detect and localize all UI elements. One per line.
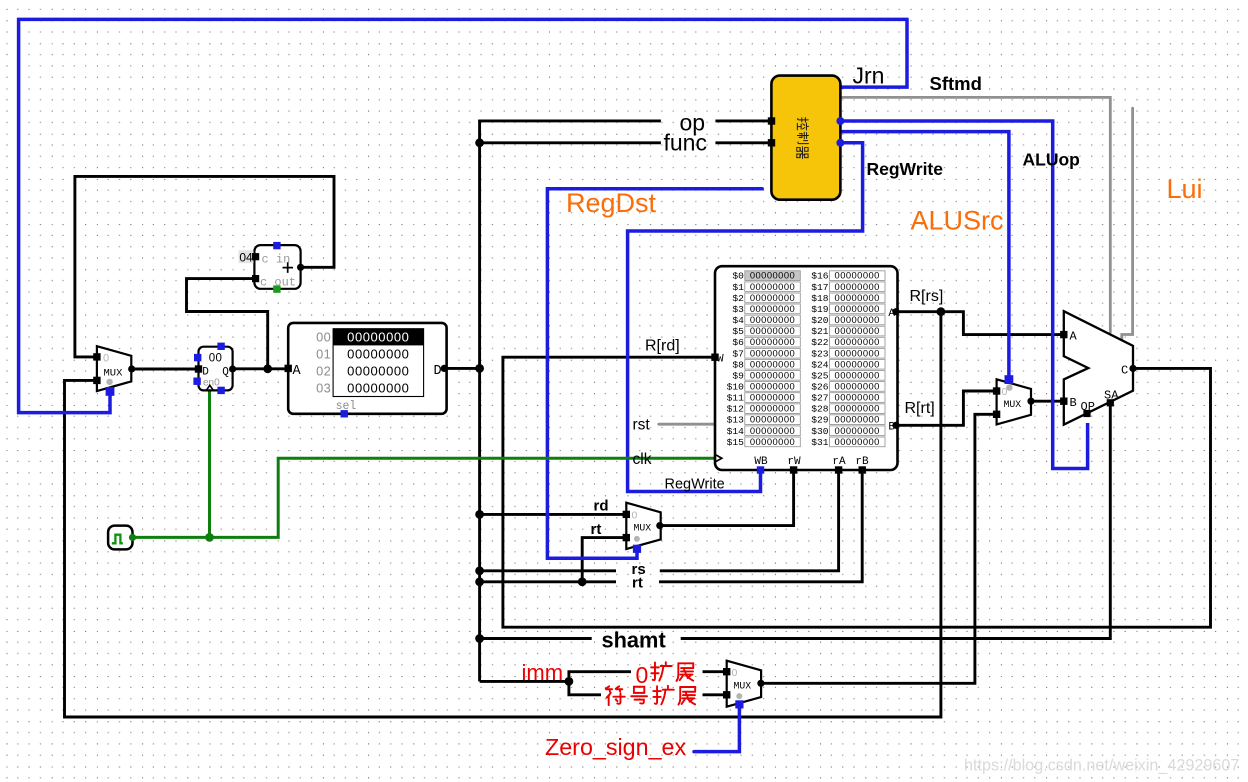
svg-text:00000000: 00000000 (750, 381, 795, 392)
ALUSrc mux output dot (1027, 398, 1034, 405)
svg-text:Sftmd: Sftmd (930, 73, 982, 94)
svg-text:$22: $22 (811, 337, 829, 348)
wire: Lui gray floating (1122, 108, 1133, 347)
label 0-extend (red) (636, 662, 694, 688)
svg-text:00000000: 00000000 (750, 414, 795, 425)
svg-text:$4: $4 (732, 315, 744, 326)
svg-text:A: A (1070, 329, 1078, 343)
extend mux input 0 port (723, 668, 730, 675)
junction: green clock node (205, 533, 214, 542)
svg-text:rd: rd (594, 498, 609, 515)
svg-text:R[rt]: R[rt] (905, 400, 935, 417)
svg-text:00000000: 00000000 (347, 380, 409, 395)
wire: extender mux output to ALUSrc mux input 1 (761, 414, 997, 683)
wire: ALUSrc mux output to ALU B (1031, 400, 1064, 403)
svg-text:MUX: MUX (1004, 399, 1022, 410)
counter U4 (c in / c out) (254, 245, 300, 289)
svg-text:imm: imm (522, 660, 564, 685)
extend mux select pin (blue) (735, 700, 743, 708)
svg-text:RegDst: RegDst (566, 188, 657, 218)
svg-text:00000000: 00000000 (835, 436, 880, 447)
ALU C output dot (1129, 365, 1136, 372)
svg-text:00000000: 00000000 (835, 369, 880, 380)
wire: Jrn top run to PC mux select (19, 19, 909, 412)
svg-text:clk: clk (633, 451, 652, 468)
wire: zero-extend branch left (569, 672, 631, 683)
svg-text:$18: $18 (811, 293, 829, 304)
controller input port: func (768, 139, 775, 146)
rd/rt mux output dot (656, 522, 663, 529)
controller input port: op (768, 117, 775, 124)
PC mux select pin (blue) (106, 387, 115, 396)
wire: rt line left (480, 580, 616, 583)
ALUSrc mux input 0 port (993, 387, 1000, 394)
svg-text:A: A (293, 364, 302, 379)
PC Q output dot (229, 365, 236, 372)
svg-text:MUX: MUX (104, 368, 124, 380)
svg-text:$12: $12 (727, 404, 745, 415)
label sign-extend (red) (606, 686, 695, 705)
svg-text:00000000: 00000000 (835, 381, 880, 392)
svg-text:$0: $0 (732, 271, 744, 282)
svg-text:0: 0 (632, 509, 638, 521)
extend mux output dot (757, 680, 764, 687)
svg-text:00000000: 00000000 (750, 336, 795, 347)
wire: shamt line right to ALU SA (681, 404, 1111, 639)
wire: ALUop from controller to ALU OP (840, 121, 1087, 469)
wire: instruction bus vertical (478, 120, 481, 682)
wire: rd line (480, 513, 627, 516)
svg-text:00000000: 00000000 (750, 281, 795, 292)
counter c out port (252, 275, 259, 282)
register file WB port (blue pin) (757, 466, 764, 473)
PC mux input 1 port (93, 377, 100, 384)
svg-text:$1: $1 (732, 282, 744, 293)
ROM sel pin (blue) (341, 410, 348, 417)
wire: rt line right to rB (659, 470, 862, 582)
svg-text:$5: $5 (732, 326, 744, 337)
ALU U7 (1064, 311, 1133, 424)
svg-text:rW: rW (787, 456, 801, 468)
rd/rt mux select pin (blue) (633, 545, 641, 553)
wire: func line left (480, 141, 661, 144)
svg-text:00000000: 00000000 (835, 403, 880, 414)
svg-text:$30: $30 (811, 426, 829, 437)
svg-text:$16: $16 (811, 271, 829, 282)
svg-text:00000000: 00000000 (835, 425, 880, 436)
svg-text:RegWrite: RegWrite (665, 477, 725, 493)
wire: register file B output R[rt] to ALUSrc mux (896, 391, 997, 425)
svg-text:https://blog.csdn.net/weixin_4: https://blog.csdn.net/weixin_42929607 (964, 757, 1239, 775)
wire: PC mux output to PC D (132, 368, 196, 371)
PC D input port (195, 365, 202, 372)
wire: imm trunk (480, 680, 569, 683)
wire: ROM D output to bus (444, 367, 479, 370)
wire: ALUSrc from controller to ALUSrc mux select (840, 132, 1009, 377)
register file U2 (715, 266, 898, 470)
rd/rt mux input 1 port (623, 534, 630, 541)
wire: clock branch to PC register (208, 392, 211, 538)
zero/sign extend mux M4 (727, 661, 761, 707)
ALU OP port (1083, 410, 1090, 417)
svg-text:$2: $2 (732, 293, 744, 304)
wire: Jrn from controller up (840, 19, 907, 87)
svg-text:MUX: MUX (734, 680, 752, 691)
PC mux input 0 port (93, 353, 100, 360)
register file A output dot (892, 308, 899, 315)
svg-text:00000000: 00000000 (835, 336, 880, 347)
svg-text:$10: $10 (727, 382, 745, 393)
svg-text:00000000: 00000000 (347, 330, 409, 345)
svg-text:00000000: 00000000 (750, 270, 795, 281)
svg-text:00: 00 (316, 330, 331, 345)
wire: register file A output R[rs] (896, 312, 1064, 335)
svg-text:ALUop: ALUop (1023, 150, 1080, 170)
ALU SA port (1107, 399, 1114, 406)
svg-text:$29: $29 (811, 415, 829, 426)
svg-text:rB: rB (855, 456, 869, 468)
PC mux output dot (128, 365, 135, 372)
counter top pin (blue) (273, 242, 280, 249)
svg-text:R[rs]: R[rs] (910, 288, 944, 305)
rd/rt mux M2 (626, 503, 660, 549)
svg-text:D: D (433, 364, 441, 379)
svg-text:$31: $31 (811, 437, 829, 448)
svg-text:$14: $14 (727, 426, 745, 437)
svg-text:00000000: 00000000 (750, 403, 795, 414)
svg-text:00000000: 00000000 (750, 347, 795, 358)
clock source U6 (108, 526, 132, 550)
svg-text:$28: $28 (811, 404, 829, 415)
counter output dot (297, 264, 304, 271)
svg-text:rt: rt (591, 521, 602, 538)
svg-text:$25: $25 (811, 370, 829, 381)
svg-text:shamt: shamt (602, 628, 666, 653)
wire: shamt line left (480, 637, 592, 640)
svg-text:00000000: 00000000 (750, 392, 795, 403)
register file B output dot (892, 422, 899, 429)
wire: op line right (715, 119, 771, 122)
wire: clock output run (133, 458, 716, 537)
svg-text:0: 0 (732, 667, 738, 679)
svg-text:$26: $26 (811, 382, 829, 393)
ALUSrc mux M3 (997, 379, 1031, 424)
wire: PC Q to ROM A (233, 367, 289, 370)
wire: R[rs] branch to PC mux (jr path) (65, 312, 941, 717)
svg-text:00000000: 00000000 (347, 364, 409, 379)
svg-text:$11: $11 (727, 393, 745, 404)
svg-text:00000000: 00000000 (835, 358, 880, 369)
rd/rt mux input 0 port (623, 511, 630, 518)
wire: sign-extend branch left (569, 680, 601, 695)
svg-text:func: func (664, 130, 707, 156)
constant 04 feeding c in (239, 250, 254, 264)
counter bottom pin (green) (273, 285, 280, 292)
wire: Sftmd gray from controller (840, 97, 1110, 332)
svg-text:01: 01 (316, 347, 331, 362)
PC source mux M1 (97, 346, 131, 391)
svg-text:$13: $13 (727, 415, 745, 426)
svg-text:rst: rst (633, 417, 651, 434)
svg-text:00000000: 00000000 (750, 303, 795, 314)
svg-text:00000000: 00000000 (835, 414, 880, 425)
svg-text:rA: rA (832, 456, 846, 468)
register file rB port (859, 466, 866, 473)
svg-text:RegWrite: RegWrite (867, 159, 944, 179)
svg-text:Q: Q (222, 366, 229, 378)
svg-text:00000000: 00000000 (835, 314, 880, 325)
svg-text:00000000: 00000000 (750, 325, 795, 336)
ALUSrc mux input 1 port (993, 411, 1000, 418)
svg-text:$9: $9 (732, 370, 744, 381)
wire: Zero_sign_ex to extender mux select (694, 705, 739, 752)
svg-text:Lui: Lui (1167, 174, 1203, 204)
instruction ROM U3 (288, 323, 446, 414)
svg-text:04: 04 (239, 250, 253, 264)
svg-text:00000000: 00000000 (835, 392, 880, 403)
counter c in port (252, 253, 259, 260)
wire: zero-extend branch right (703, 670, 727, 673)
svg-text:c in: c in (262, 253, 291, 267)
ROM D output dot (441, 365, 448, 372)
svg-text:ALUSrc: ALUSrc (911, 206, 1004, 236)
svg-text:C: C (1121, 363, 1128, 377)
svg-text:00000000: 00000000 (835, 292, 880, 303)
wire: counter c-out tap of PC value (187, 279, 268, 369)
svg-text:00000000: 00000000 (750, 292, 795, 303)
junction dots (black) (263, 138, 945, 685)
svg-text:00000000: 00000000 (835, 281, 880, 292)
svg-text:00000000: 00000000 (750, 358, 795, 369)
clock output dot (green) (129, 534, 136, 541)
ALUSrc mux select pin (blue) (1005, 375, 1014, 384)
svg-text:02: 02 (316, 364, 331, 379)
controller U1 (yellow box) (771, 76, 840, 200)
wire: rs line left (480, 569, 616, 572)
svg-text:Zero_sign_ex: Zero_sign_ex (545, 734, 687, 760)
svg-text:rt: rt (632, 575, 643, 592)
svg-text:00000000: 00000000 (750, 314, 795, 325)
svg-text:$17: $17 (811, 282, 828, 293)
PC register pins (blue) (193, 343, 224, 395)
register file rW port (790, 466, 797, 473)
wire: func line right (715, 141, 771, 144)
svg-text:00: 00 (209, 352, 223, 364)
PC register U5 (199, 347, 233, 391)
register file W port (711, 354, 718, 361)
svg-text:03: 03 (316, 380, 331, 395)
svg-text:B: B (1070, 396, 1077, 410)
svg-text:MUX: MUX (634, 523, 652, 534)
svg-text:$6: $6 (732, 337, 744, 348)
wire: rd/rt mux output to rW (660, 470, 794, 526)
svg-text:00000000: 00000000 (835, 325, 880, 336)
controller output pin dot: RegWrite (836, 139, 844, 147)
svg-text:00000000: 00000000 (750, 369, 795, 380)
svg-text:Jrn: Jrn (853, 63, 885, 89)
register file rA port (835, 466, 842, 473)
svg-text:R[rd]: R[rd] (645, 338, 680, 355)
svg-text:WB: WB (754, 456, 768, 468)
wire: rst gray stub (659, 423, 715, 426)
wire: rt branch to rd/rt mux (582, 538, 626, 583)
wire: op line left (478, 119, 661, 122)
wire: counter output loop to PC mux input 0 (75, 176, 334, 357)
svg-text:00000000: 00000000 (835, 303, 880, 314)
svg-text:00000000: 00000000 (347, 347, 409, 362)
svg-text:0: 0 (103, 352, 109, 364)
wire: rs line right to rA (660, 470, 839, 571)
svg-text:$7: $7 (732, 348, 744, 359)
ALU A port (1060, 331, 1067, 338)
svg-text:$23: $23 (811, 348, 829, 359)
svg-text:$20: $20 (811, 315, 829, 326)
svg-text:$8: $8 (732, 359, 744, 370)
wire: sign-extend branch right (703, 693, 727, 696)
svg-text:$24: $24 (811, 359, 829, 370)
svg-text:0: 0 (636, 662, 649, 688)
svg-text:00000000: 00000000 (835, 347, 880, 358)
wire: RegDst to rd/rt mux select (547, 189, 762, 559)
svg-text:00000000: 00000000 (750, 436, 795, 447)
svg-text:$27: $27 (811, 393, 828, 404)
wire: ALU C result to register file W data (R[rd]) (503, 357, 1211, 627)
svg-text:$15: $15 (727, 437, 745, 448)
wire: RegWrite from controller to WB (628, 143, 863, 492)
svg-text:00000000: 00000000 (835, 270, 880, 281)
ROM A port (285, 365, 292, 372)
svg-text:$21: $21 (811, 326, 829, 337)
ALU B port (1060, 398, 1067, 405)
svg-text:00000000: 00000000 (750, 425, 795, 436)
extend mux input 1 port (723, 691, 730, 698)
svg-text:$3: $3 (732, 304, 744, 315)
controller output pin dot: ALUop (836, 117, 844, 125)
svg-text:$19: $19 (811, 304, 829, 315)
